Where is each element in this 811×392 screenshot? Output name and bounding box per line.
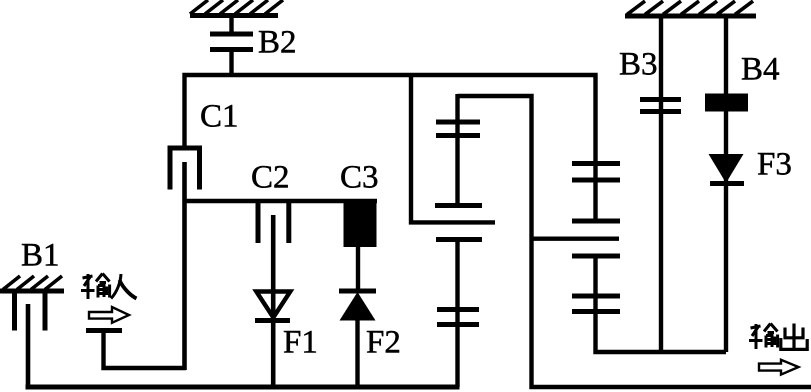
brake B2 (210, 16, 253, 78)
车 radical of 输 (751, 326, 761, 328)
one-way clutch F2 (339, 291, 376, 387)
wire B4/F3 shaft (724, 16, 728, 352)
俞 of 输 (96, 274, 103, 282)
gearset1 upper mesh bar (435, 203, 482, 208)
label 输出 (output) hand-drawn glyphs (749, 324, 778, 350)
gearset1 sun shaft stem upper (455, 94, 459, 206)
gearset2 lower stem and output link (596, 256, 727, 352)
ground top-right (625, 1, 756, 16)
svg-text:C3: C3 (340, 160, 379, 196)
wire input shaft vertical (C1 hub down to input elbow) (182, 162, 187, 370)
svg-text:C2: C2 (251, 160, 290, 196)
brake B3 (640, 97, 681, 102)
gearset2 bottom gear mesh pair (572, 294, 620, 299)
brake B1 (15, 291, 46, 331)
output arrow (759, 360, 799, 375)
ground left (B1) (0, 276, 64, 291)
one-way clutch F1 (255, 292, 290, 321)
gearset1 bottom gear mesh pair (437, 307, 479, 312)
svg-text:B3: B3 (619, 47, 658, 83)
gearset2 top gear mesh pair (572, 161, 620, 166)
wire C3 to F2 (356, 245, 360, 293)
svg-text:F3: F3 (757, 147, 792, 183)
clutch C2 (258, 201, 289, 243)
gearset1 lower mesh bar (436, 237, 482, 242)
wire ring link and bottom-right rail (458, 96, 811, 387)
车 radical of 输 (83, 276, 93, 278)
svg-text:C1: C1 (200, 99, 239, 135)
input shaft tee (86, 331, 186, 369)
input arrow (89, 307, 129, 323)
brake B4 (piston block) (705, 94, 748, 112)
gearset1 lower stem (455, 240, 459, 388)
label 输入 (input) hand-drawn glyphs (81, 274, 110, 300)
wire top rail: C1 shaft up, across, down to gearset2 (185, 75, 596, 166)
wire B1 hub to bottom-left rail (26, 304, 31, 387)
wire mid rail C2/C3 (183, 199, 378, 203)
clutch C1 (168, 146, 203, 190)
wire bottom-left rail (26, 385, 460, 390)
wire B3 shaft (659, 16, 663, 352)
svg-text:B1: B1 (21, 238, 60, 274)
wire C2 hub down through F1 to bottom-left rail (271, 215, 276, 387)
gearset2 carrier arm (532, 236, 620, 240)
gearset2 upper mesh bar (572, 219, 620, 224)
gearset2 lower mesh bar (572, 254, 620, 259)
svg-text:F1: F1 (283, 325, 318, 361)
gearset2 stem middle (593, 164, 597, 221)
svg-text:F2: F2 (366, 325, 401, 361)
出 of 输出 (781, 324, 807, 350)
gearset1 top gear mesh pair (436, 120, 480, 125)
入 of 输入 (111, 274, 137, 299)
one-way clutch F3 (709, 154, 744, 183)
clutch C3 (piston block) (344, 199, 377, 247)
俞 of 输 (764, 324, 771, 332)
gearset1 carrier arm (411, 75, 495, 222)
svg-text:B4: B4 (741, 52, 780, 88)
ground top-center (190, 0, 283, 16)
svg-text:B2: B2 (258, 25, 297, 61)
